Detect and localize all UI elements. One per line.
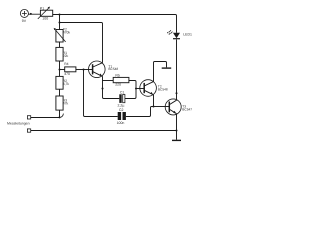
svg-text:2,2µ: 2,2µ bbox=[118, 104, 125, 108]
wire node A down bbox=[59, 15, 61, 23]
svg-text:Messleitungen: Messleitungen bbox=[7, 121, 30, 125]
wire T2 emitter down to node H bbox=[153, 95, 155, 107]
transistor T3 bbox=[165, 99, 181, 115]
node I (T3 collector) bbox=[176, 92, 178, 94]
LED LED1 bbox=[167, 30, 180, 39]
svg-text:BC548: BC548 bbox=[108, 67, 118, 71]
resistor R1 bbox=[56, 47, 63, 61]
svg-text:470: 470 bbox=[64, 72, 70, 76]
svg-text:4,7k: 4,7k bbox=[63, 82, 70, 86]
svg-text:470k: 470k bbox=[63, 31, 71, 35]
terminal 1 bbox=[27, 116, 30, 119]
resistor R4 bbox=[65, 67, 76, 72]
wire node B to T1 collector bbox=[60, 23, 103, 63]
wire stub curving up from node E bbox=[60, 114, 64, 118]
plate bar (T2 collector) bbox=[162, 67, 172, 69]
svg-text:100n: 100n bbox=[117, 121, 125, 125]
wire P1 to top rail corner and down to LED bbox=[53, 15, 177, 33]
potentiometer P1 bbox=[40, 10, 52, 16]
svg-text:BC547: BC547 bbox=[182, 107, 192, 111]
wire node B down to P2 bbox=[59, 23, 61, 30]
node F (emitter column) bbox=[102, 88, 104, 90]
svg-text:LED1: LED1 bbox=[183, 33, 192, 37]
wire node D to T1 base bbox=[84, 69, 93, 71]
wire P2 to R1 bbox=[59, 42, 61, 47]
wire T2 collector up to plate bbox=[154, 62, 167, 82]
node B bbox=[59, 22, 61, 24]
ground bbox=[172, 139, 181, 141]
potentiometer P2 bbox=[56, 30, 63, 43]
node H bbox=[153, 106, 155, 108]
bottom rail wire bbox=[31, 130, 177, 132]
wire node C to R2 bbox=[59, 70, 61, 77]
terminal 2 bbox=[27, 129, 30, 132]
wire node H to T3 base bbox=[154, 106, 170, 108]
svg-text:47k: 47k bbox=[63, 102, 69, 106]
node C bbox=[59, 69, 61, 71]
svg-text:220: 220 bbox=[115, 82, 121, 86]
wire node C to R4 bbox=[60, 69, 65, 71]
node D (T1 base junction) bbox=[83, 69, 85, 71]
battery terminal +9V bbox=[20, 9, 28, 17]
svg-text:C2: C2 bbox=[119, 108, 124, 112]
wire T1 emitter branch to R5 bbox=[103, 80, 114, 82]
transistor T1 bbox=[89, 61, 106, 78]
svg-text:P1: P1 bbox=[40, 6, 44, 10]
wire R3 to node E bbox=[59, 110, 61, 117]
wire terminal 1 to node E bbox=[31, 117, 60, 119]
wire R4 to node D bbox=[76, 69, 84, 71]
node E bbox=[59, 116, 61, 118]
wire node D down to C2 line bbox=[84, 70, 118, 117]
wire node G to T2 base bbox=[136, 88, 144, 90]
svg-text:100: 100 bbox=[42, 17, 48, 21]
transistor T2 bbox=[140, 80, 157, 97]
wire battery to P1 bbox=[28, 13, 40, 15]
resistor R5 bbox=[113, 77, 129, 82]
capacitor C1 bbox=[119, 94, 125, 103]
wire LED cathode down to node I bbox=[176, 40, 178, 94]
node after battery bbox=[30, 13, 32, 15]
wire R5 to right column bbox=[125, 81, 136, 99]
wire T3 collector up bbox=[176, 93, 178, 100]
svg-text:BC548: BC548 bbox=[158, 87, 168, 91]
wire T1 emitter down to C1 bbox=[103, 76, 120, 98]
wire R1 to node C bbox=[59, 61, 61, 70]
wire C2 to node H bbox=[126, 107, 154, 117]
svg-text:22k: 22k bbox=[63, 54, 69, 58]
svg-text:R5: R5 bbox=[115, 74, 120, 78]
svg-text:C1: C1 bbox=[120, 90, 125, 94]
wire R2 to R3 bbox=[59, 89, 61, 96]
node J (bottom rail) bbox=[176, 130, 178, 132]
wire T3 emitter down to ground bbox=[176, 114, 178, 140]
node G (T2 base junction) bbox=[135, 88, 137, 90]
svg-text:R4: R4 bbox=[64, 62, 68, 66]
resistor R3 bbox=[56, 96, 63, 110]
svg-text:9V: 9V bbox=[22, 19, 27, 23]
node A top rail bbox=[59, 14, 61, 16]
capacitor C2 bbox=[118, 112, 126, 120]
resistor R2 bbox=[56, 76, 63, 89]
